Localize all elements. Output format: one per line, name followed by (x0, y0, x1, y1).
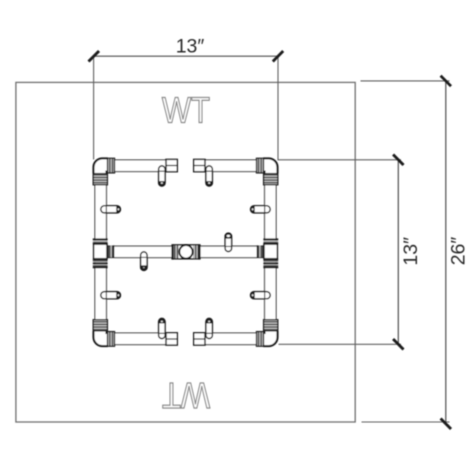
svg-text:WT: WT (162, 90, 210, 131)
svg-text:13″: 13″ (176, 35, 205, 57)
svg-text:13″: 13″ (400, 237, 422, 266)
svg-text:26″: 26″ (448, 237, 470, 266)
svg-text:WT: WT (162, 374, 210, 415)
